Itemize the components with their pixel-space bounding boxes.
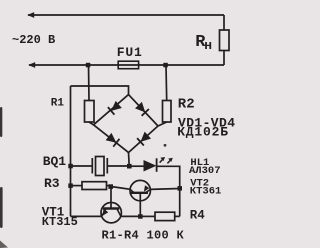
- scan-edge smudge lower: [0, 187, 3, 228]
- svg-text:R4: R4: [190, 208, 206, 222]
- junction: node E (VT2 base - bottom wire): [138, 214, 143, 219]
- junction: node B (fuse-R2): [163, 63, 168, 68]
- wire: VT1 base lead: [110, 186, 112, 209]
- wire: R2 top lead: [165, 65, 168, 101]
- wire: bridge diamond edges: [94, 95, 159, 153]
- svg-text:АЛ307: АЛ307: [189, 165, 221, 177]
- wire: BQ1 left lead: [71, 165, 93, 167]
- wire: bridge bottom vertex drop: [128, 153, 131, 167]
- wire: R3 left lead: [71, 185, 83, 187]
- junction: node D (LED - VT2 emitter): [178, 186, 183, 191]
- stray ink dot: [164, 144, 167, 147]
- wire: second AC line: [29, 64, 224, 66]
- wire: BQ1 right lead: [107, 165, 129, 167]
- scan-edge corner mark: [0, 241, 8, 248]
- diode VD3 (bridge lower-left): [105, 133, 119, 147]
- wire: RH bottom lead: [223, 51, 225, 66]
- svg-text:R1-R4 100 К: R1-R4 100 К: [102, 229, 185, 243]
- wire: LED line left: [129, 165, 143, 167]
- wire: VT1 emitter to left rail: [71, 215, 102, 217]
- diode VD2 (bridge upper-right): [135, 102, 149, 116]
- quartz resonator BQ1: [92, 157, 107, 176]
- svg-text:BQ1: BQ1: [43, 154, 67, 169]
- wire: bridge top vertex to left rail: [71, 86, 129, 95]
- arrow: AC plug top: [27, 12, 34, 18]
- svg-text:FU1: FU1: [117, 45, 143, 60]
- junction: left rail - BQ1: [68, 164, 73, 169]
- svg-text:КТ315: КТ315: [42, 215, 78, 229]
- wire: VT2 base lead down: [139, 193, 141, 217]
- wire: node F to VT2 collector: [111, 187, 130, 190]
- wire: R2 bottom lead to bridge right vertex: [158, 122, 167, 126]
- junction: node C (bridge minus / BQ1 / LED): [127, 164, 132, 169]
- LED HL1: [144, 157, 173, 172]
- svg-text:н: н: [204, 38, 212, 53]
- svg-text:R1: R1: [51, 98, 65, 110]
- wire: bottom run VT1 collector to node E: [121, 215, 141, 217]
- wire: R4 right lead: [175, 215, 180, 217]
- arrow: VT1 emitter (npn, outward): [102, 209, 108, 216]
- resistor R3: [82, 182, 107, 190]
- wire: VT2 emitter line to node D: [150, 188, 179, 191]
- diode VD1 (bridge upper-left): [108, 101, 122, 115]
- wire: R3 right lead: [107, 185, 112, 187]
- junction: node F (R3 - VT1 base - VT2 collector): [108, 184, 113, 189]
- fuse FU1: [118, 61, 138, 68]
- junction: left rail - R3: [68, 183, 73, 188]
- transistor VT2 (KT361, pnp): [130, 180, 150, 200]
- resistor R2: [163, 101, 172, 123]
- wire: top AC line: [28, 14, 224, 16]
- transistor VT1 (KT315, npn): [101, 203, 121, 223]
- svg-text:~220 В: ~220 В: [12, 33, 55, 47]
- wire: right drop to RH: [223, 15, 225, 30]
- junction: node A (fuse-R1): [86, 63, 91, 68]
- wire: LED cathode to corner and down: [157, 166, 180, 216]
- diode VD4 (bridge lower-right): [137, 131, 151, 145]
- resistor R4: [155, 212, 175, 220]
- svg-text:R3: R3: [44, 176, 60, 191]
- svg-text:КД102Б: КД102Б: [177, 124, 229, 139]
- resistor RH: [220, 30, 230, 51]
- svg-text:R2: R2: [178, 96, 195, 112]
- wire: R4 left lead: [141, 215, 155, 217]
- scan-edge smudge upper: [0, 107, 2, 137]
- wire: left rail: [70, 86, 72, 216]
- arrow: VT2 emitter (pnp, toward base): [144, 185, 149, 192]
- resistor R1: [85, 101, 95, 123]
- svg-text:КТ361: КТ361: [190, 185, 222, 197]
- arrow: AC plug bottom: [28, 62, 35, 68]
- wire: R1 top lead: [88, 65, 91, 101]
- wire: R1 bottom lead to bridge left vertex: [89, 122, 94, 125]
